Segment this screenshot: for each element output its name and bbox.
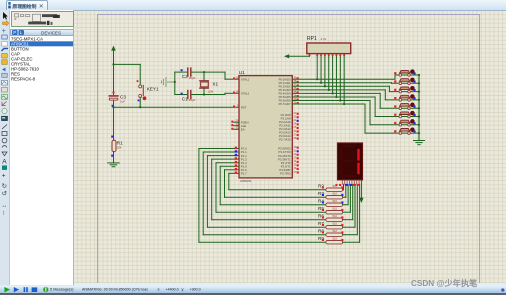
- 2D circle icon: [2, 138, 7, 143]
- svg-text:+900.0: +900.0: [190, 287, 201, 291]
- svg-text:y:: y:: [182, 287, 185, 291]
- svg-text:+4400.0: +4400.0: [166, 287, 179, 291]
- U1 left pin numbers: [236, 76, 239, 130]
- wire C3 to R1: [113, 100, 115, 140]
- U1 right pin numbers: [293, 76, 296, 174]
- ground terminal left: [161, 77, 174, 86]
- capacitor C3: [109, 92, 126, 107]
- wire R3 to display pin: [343, 184, 346, 197]
- wire R5 to display pin: [343, 184, 351, 212]
- ground right: [414, 141, 425, 145]
- sheet border right: [479, 14, 480, 283]
- wire R8 to display pin: [343, 184, 358, 234]
- watermark: [411, 277, 506, 287]
- 7-segment display: [337, 143, 362, 180]
- resistor R5: [318, 206, 343, 214]
- message info icon: [43, 287, 48, 292]
- 2D line icon: [2, 125, 7, 130]
- resistor R4: [318, 198, 343, 206]
- device icon: [2, 60, 7, 65]
- power terminal left: [284, 54, 289, 58]
- selection bar: [10, 41, 73, 46]
- wire RST net: [114, 106, 240, 108]
- resistor and LED D2 row: [394, 78, 420, 85]
- resistor pack RP1: [307, 36, 351, 54]
- microcontroller U1 AT89C51: [239, 70, 292, 183]
- resistor R3: [318, 191, 343, 199]
- wire R2 to display pin: [342, 184, 345, 189]
- P button: [12, 30, 18, 35]
- active tab: [6, 0, 48, 10]
- corner dot: [501, 288, 504, 291]
- generator icon: [2, 95, 8, 100]
- power terminal VCC: [111, 46, 116, 65]
- status bar pale band: [74, 283, 506, 287]
- pin icon: [2, 73, 7, 77]
- component mode icon: [3, 21, 10, 27]
- node KEY1 RST junction: [139, 106, 141, 108]
- graph icon: [2, 80, 8, 85]
- status bar row: [0, 286, 506, 293]
- instrument icon: [2, 116, 8, 120]
- node rail ground junction: [174, 81, 176, 83]
- bottom gray strip: [0, 293, 506, 295]
- wire bottom crystal net: [175, 93, 239, 94]
- resistor R8: [318, 228, 343, 236]
- resistor R2: [318, 183, 343, 191]
- resistor and LED D8 row: [394, 128, 420, 135]
- U1 right pin labels: [278, 77, 291, 175]
- bus icon: [2, 49, 9, 52]
- display pin state marks: [335, 184, 337, 186]
- 2D box icon: [2, 132, 7, 136]
- U1 P1 pins and staircase wires to R ladder: [199, 149, 326, 243]
- left toolbar strip: [0, 10, 10, 285]
- resistor R9: [318, 236, 343, 244]
- resistor R1: [111, 136, 123, 157]
- resistor and LED D6 row: [394, 111, 420, 118]
- node RP1 bus junctions: [316, 78, 318, 80]
- wire to KEY1 branch: [114, 64, 141, 85]
- resistor and LED D7 row: [394, 120, 420, 127]
- devices header: [10, 29, 74, 36]
- node rail RST junction: [112, 106, 114, 108]
- wire R7 to display pin: [343, 184, 355, 227]
- current probe icon: [2, 108, 7, 113]
- wire R4 to display pin: [343, 184, 348, 204]
- top tab bar: [0, 0, 506, 11]
- ground under R1: [108, 163, 119, 167]
- power terminal down: [359, 198, 363, 203]
- sheet border top: [97, 14, 480, 15]
- L button: [19, 30, 25, 35]
- play button: [4, 287, 10, 292]
- node crystal bottom junction: [203, 93, 205, 95]
- tape icon: [2, 88, 8, 92]
- preview window: [11, 11, 74, 27]
- 2D arc icon: [2, 146, 7, 148]
- crystal X1: [200, 72, 219, 94]
- 2D symbol icon: [2, 166, 7, 170]
- left panel (object selector): [10, 10, 74, 285]
- step button: [14, 287, 19, 292]
- node crystal top junction: [203, 71, 205, 73]
- U1 left pin stubs PSEN ALE EA: [234, 122, 239, 129]
- stop button: [32, 287, 38, 292]
- resistor and LED D4 row: [394, 95, 420, 102]
- P0 bus wires to LED rows: [292, 75, 419, 133]
- voltage probe icon: [2, 102, 7, 106]
- svg-text:ANIMATING: 00:00:49.850000 (CP: ANIMATING: 00:00:49.850000 (CPU loac: [82, 287, 148, 291]
- crystal left rail: [174, 72, 176, 94]
- wire R6 to display pin: [343, 184, 353, 219]
- RP1 pin dots: [309, 54, 311, 56]
- wire rail to C3: [113, 64, 115, 95]
- text script icon: [2, 42, 7, 47]
- wire KEY1 to RST net: [139, 97, 141, 107]
- terminal icon: [2, 68, 6, 72]
- svg-text:5 Message(s): 5 Message(s): [50, 286, 74, 291]
- wire top crystal net: [175, 72, 239, 79]
- 2D path icon: [2, 152, 7, 156]
- resistor R6: [318, 213, 343, 221]
- capacitor C2: [181, 68, 196, 80]
- arrow cursor icon: [3, 12, 8, 20]
- resistor and LED D5 row: [394, 103, 420, 110]
- wire R9 to display pin: [343, 184, 360, 242]
- U1 left pin labels: [241, 77, 250, 175]
- display CA wire to power: [360, 180, 362, 198]
- wire label icon: [2, 35, 7, 39]
- LED common rail: [418, 75, 420, 141]
- RP1 pins 2-9 wires to P0 bus: [317, 54, 344, 104]
- resistor and LED D3 row: [394, 86, 420, 93]
- sheet border left: [97, 14, 98, 283]
- subcircuit icon: [2, 54, 7, 59]
- U1 right pin state squares: [297, 77, 299, 79]
- toolbar icons: [0, 0, 12, 295]
- display pin stubs: [342, 180, 359, 184]
- resistor R7: [318, 221, 343, 229]
- node power rail junction: [112, 63, 114, 65]
- capacitor C1: [181, 91, 196, 103]
- resistor and LED D1 row: [394, 70, 420, 77]
- pause button: [24, 287, 26, 292]
- U1 left pin state squares: [233, 77, 235, 79]
- svg-text:x:: x:: [158, 287, 161, 291]
- button KEY1: [137, 80, 159, 101]
- RP1 pin1 wire to power: [289, 54, 310, 57]
- wire R1 to ground: [113, 152, 115, 163]
